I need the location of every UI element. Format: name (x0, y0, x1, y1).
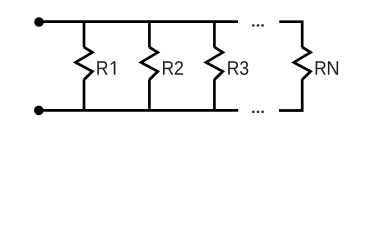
resistor RN (294, 47, 311, 79)
wire bottom rail (39, 109, 238, 112)
resistor R2 (141, 47, 158, 79)
wire R1 bottom lead (83, 79, 86, 110)
ellipsis top (252, 24, 264, 27)
wire RN bottom bracket (279, 79, 302, 110)
wire RN top bracket (279, 22, 302, 48)
label R3 (228, 61, 248, 75)
label RN (316, 61, 338, 74)
ellipsis bottom (252, 111, 264, 114)
resistor R3 (206, 47, 223, 79)
resistor R1 (76, 47, 93, 79)
wire R1 top lead (83, 22, 86, 48)
wire R2 bottom lead (148, 79, 151, 110)
node terminal dot top-left (34, 17, 44, 27)
wire R2 top lead (148, 22, 151, 48)
wire R3 top lead (213, 22, 216, 48)
label R1 (97, 61, 115, 74)
node terminal dot bottom-left (34, 106, 44, 116)
wire top rail (39, 20, 238, 23)
label R2 (163, 61, 183, 75)
wire R3 bottom lead (213, 79, 216, 110)
